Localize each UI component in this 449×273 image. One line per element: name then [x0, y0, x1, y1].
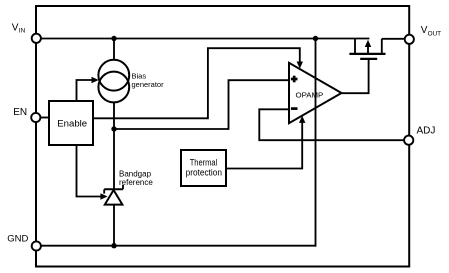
- label bias generator: [132, 72, 165, 90]
- svg-text:OPAMP: OPAMP: [296, 91, 324, 100]
- wire enable to bandgap with arrow: [77, 145, 108, 200]
- svg-text:Thermal: Thermal: [190, 158, 218, 168]
- junction dot VIN-opamp supply: [313, 36, 318, 41]
- wire drain to VOUT: [382, 38, 409, 40]
- wire VIN to bias generator: [113, 39, 115, 61]
- pin VOUT: [405, 35, 414, 44]
- junction dot VIN-bias: [111, 36, 116, 41]
- wire GND rail: [36, 245, 316, 247]
- wire opamp minus input to ADJ: [259, 109, 409, 140]
- wire bias generator to bandgap node: [113, 102, 115, 129]
- IC boundary box: [36, 6, 409, 267]
- svg-text:GND: GND: [7, 234, 28, 245]
- op-amp U1: [289, 63, 342, 123]
- svg-text:reference: reference: [119, 178, 153, 187]
- zener diode D1 bandgap: [104, 185, 123, 205]
- junction dot bandgap-GND: [111, 243, 116, 248]
- svg-text:Enable: Enable: [57, 119, 87, 130]
- svg-text:Bandgap: Bandgap: [119, 169, 152, 178]
- block thermal protection: [181, 150, 226, 186]
- wire thermal protection to opamp with up arrow: [226, 116, 305, 169]
- svg-text:generator: generator: [132, 80, 165, 89]
- current source I1 bias generator: [98, 60, 129, 103]
- node bandgap reference: wire to opamp + input: [114, 80, 289, 129]
- wire bandgap node to zener: [113, 129, 115, 189]
- svg-text:V: V: [12, 23, 19, 34]
- wire opamp output to gate: [342, 60, 369, 93]
- junction dot bandgap reference node: [111, 126, 116, 131]
- block enable: [49, 101, 93, 145]
- svg-text:OUT: OUT: [428, 30, 442, 37]
- svg-text:protection: protection: [186, 167, 222, 177]
- label bandgap reference: [119, 169, 153, 187]
- svg-text:EN: EN: [13, 107, 27, 118]
- wire zener to GND: [113, 205, 115, 246]
- label VOUT: [421, 25, 441, 37]
- wire enable to opamp top with down arrow: [93, 48, 303, 118]
- wire VIN rail: [36, 38, 369, 40]
- transistor Q1 pass element: [349, 39, 385, 59]
- wire EN pin to enable block: [36, 117, 49, 119]
- label VIN: [12, 23, 26, 35]
- pin EN: [31, 113, 40, 122]
- pin GND: [32, 241, 41, 250]
- pin VIN: [32, 34, 41, 43]
- svg-text:ADJ: ADJ: [417, 126, 436, 137]
- pin ADJ: [404, 136, 413, 145]
- svg-text:IN: IN: [19, 28, 26, 35]
- wire enable to bias generator with arrow: [77, 77, 99, 102]
- wire opamp supply VIN to GND: [315, 39, 317, 247]
